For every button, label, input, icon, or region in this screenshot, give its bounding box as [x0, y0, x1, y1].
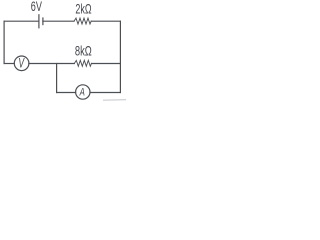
- svg-text:2kΩ: 2kΩ: [75, 3, 92, 17]
- svg-text:6V: 6V: [31, 1, 42, 15]
- svg-text:A: A: [79, 86, 85, 99]
- svg-text:V: V: [18, 57, 25, 71]
- svg-text:8kΩ: 8kΩ: [75, 45, 92, 59]
